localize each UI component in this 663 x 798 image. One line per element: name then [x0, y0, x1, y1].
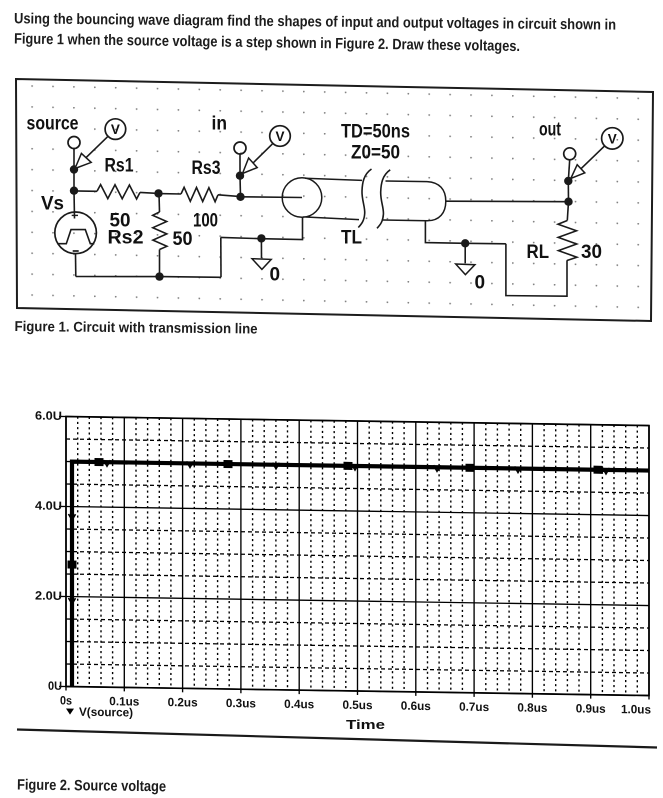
svg-text:30: 30 — [581, 242, 602, 263]
svg-text:V: V — [608, 131, 617, 146]
probe V out circle — [602, 128, 623, 149]
node ground right dot — [461, 239, 469, 247]
trace square markers — [68, 458, 603, 577]
Vs pulse waveform — [58, 230, 94, 244]
trace v markers — [69, 460, 610, 613]
svg-text:Rs1: Rs1 — [105, 156, 134, 177]
node out rail dot — [564, 198, 572, 206]
svg-text:0.8us: 0.8us — [517, 701, 547, 715]
transmission line break squiggle 1 — [358, 169, 371, 228]
wire source vertical — [73, 170, 75, 191]
wire in to TL — [241, 196, 303, 199]
svg-text:TD=50ns: TD=50ns — [341, 122, 410, 143]
resistor Rs2 — [153, 212, 167, 250]
plot major grid verticals — [66, 417, 649, 696]
svg-text:Figure 2. Source voltage: Figure 2. Source voltage — [17, 777, 166, 796]
resistor Rs3 — [181, 187, 218, 201]
wire Rs3 to in node — [218, 195, 241, 197]
svg-text:0: 0 — [270, 265, 281, 286]
plot minor grid horizontals dashed — [66, 439, 649, 673]
svg-text:0.7us: 0.7us — [459, 700, 489, 714]
svg-text:0.3us: 0.3us — [226, 696, 256, 710]
wire Rs2 bottom stub — [159, 250, 161, 277]
svg-text:V: V — [111, 122, 120, 137]
wire RL bottom stub — [566, 260, 568, 263]
svg-text:RL: RL — [527, 242, 550, 263]
svg-text:50: 50 — [173, 229, 193, 250]
Vs plus — [72, 214, 78, 216]
svg-text:out: out — [539, 120, 561, 141]
svg-text:6.0U: 6.0U — [35, 409, 62, 423]
svg-text:V(source): V(source) — [79, 705, 133, 720]
wire bottom riser left — [220, 237, 222, 277]
probe V out arrowhead — [571, 165, 585, 179]
svg-text:100: 100 — [193, 211, 218, 232]
svg-text:Figure 1 when the source volta: Figure 1 when the source voltage is a st… — [14, 31, 520, 56]
wire in vertical — [239, 176, 242, 197]
svg-text:in: in — [212, 114, 228, 135]
transmission line break squiggle 2 — [377, 170, 390, 229]
svg-text:Vs: Vs — [41, 194, 64, 215]
svg-text:V: V — [275, 129, 284, 144]
svg-text:0.9us: 0.9us — [576, 701, 606, 715]
node source dot upper — [70, 165, 78, 173]
probe V in circle — [270, 126, 291, 147]
circuit labels — [27, 114, 617, 294]
plot major grid horizontals — [66, 417, 649, 696]
node out dot upper — [564, 177, 572, 185]
wire out to RL — [567, 202, 568, 221]
node ground left dot — [257, 234, 265, 242]
trace V(source) step — [72, 462, 649, 696]
svg-text:0s: 0s — [60, 693, 72, 707]
terminal source — [68, 137, 80, 149]
svg-text:Rs2: Rs2 — [108, 228, 144, 249]
Vs minus — [73, 250, 79, 252]
svg-text:Time: Time — [346, 717, 385, 732]
wire TL bottom left — [221, 217, 303, 239]
wire bottom rail — [76, 276, 221, 279]
svg-text:Using the bouncing wave diagra: Using the bouncing wave diagram find the… — [14, 10, 616, 33]
probe V source arrowhead — [75, 153, 91, 168]
caption 2 — [17, 777, 166, 796]
resistor RL — [558, 221, 577, 261]
wire TL to out — [446, 200, 569, 203]
wire out vertical — [567, 181, 569, 202]
probe V in arrowhead — [243, 158, 258, 174]
svg-text:0.5us: 0.5us — [343, 698, 373, 712]
plot — [35, 409, 651, 728]
svg-text:Figure 1. Circuit with transm: Figure 1. Circuit with transmission line — [14, 319, 257, 338]
node bottom rail dot — [155, 272, 163, 280]
wire TL bottom right — [425, 222, 506, 244]
footer separator line — [17, 730, 657, 748]
source Vs circle — [55, 212, 97, 254]
wire Vs bottom — [75, 254, 77, 276]
wire Rs2 top stub — [158, 193, 161, 212]
svg-text:1.0us: 1.0us — [621, 702, 651, 716]
wire source stub — [73, 149, 75, 170]
svg-text:0U: 0U — [48, 679, 62, 693]
probe V out line — [573, 146, 605, 177]
transmission line body left — [305, 178, 362, 219]
wire out stub — [568, 160, 569, 181]
terminal in — [234, 142, 246, 154]
wire rail to Rs1 — [74, 190, 97, 192]
svg-text:Rs3: Rs3 — [192, 158, 221, 179]
node Rs1-Rs2 dot — [154, 189, 162, 197]
wire to Vs top — [73, 191, 76, 219]
ground left triangle — [252, 259, 271, 270]
wire Rs1 to node — [140, 192, 159, 193]
node in dot upper — [236, 172, 244, 180]
transmission line T1 left circle — [282, 178, 322, 218]
svg-text:0: 0 — [475, 273, 486, 294]
probe V source circle — [105, 119, 126, 140]
wire ground left stub — [260, 238, 262, 258]
svg-text:0.2us: 0.2us — [168, 695, 198, 709]
legend symbol — [66, 709, 74, 715]
node in rail dot — [236, 193, 244, 201]
svg-text:TL: TL — [341, 228, 362, 249]
node source rail dot — [70, 187, 78, 195]
wire in stub — [239, 154, 241, 176]
svg-text:2.0U: 2.0U — [35, 589, 62, 603]
wire ground right stub — [464, 243, 466, 263]
resistor Rs1 — [97, 185, 140, 199]
circuit — [55, 119, 623, 296]
caption 1 — [14, 319, 257, 338]
header problem text — [14, 10, 616, 55]
wire node to Rs3 — [159, 193, 182, 195]
transmission line right cap — [427, 182, 446, 221]
svg-text:0.4us: 0.4us — [284, 697, 314, 711]
svg-text:0.6us: 0.6us — [401, 699, 431, 713]
plot border — [66, 417, 649, 696]
svg-text:source: source — [27, 114, 79, 135]
plot footer — [17, 717, 657, 748]
plot minor grid verticals dotted — [78, 417, 638, 696]
ground right triangle — [456, 264, 475, 275]
probe V in line — [243, 144, 272, 173]
svg-text:Z0=50: Z0=50 — [351, 143, 400, 164]
terminal out — [564, 148, 576, 160]
wire load bottom — [506, 244, 567, 296]
probe V source line — [76, 137, 108, 168]
plot axis ticks — [59, 416, 649, 699]
svg-text:4.0U: 4.0U — [35, 499, 62, 513]
figure 1 frame — [16, 79, 653, 321]
transmission line body right — [383, 181, 427, 221]
